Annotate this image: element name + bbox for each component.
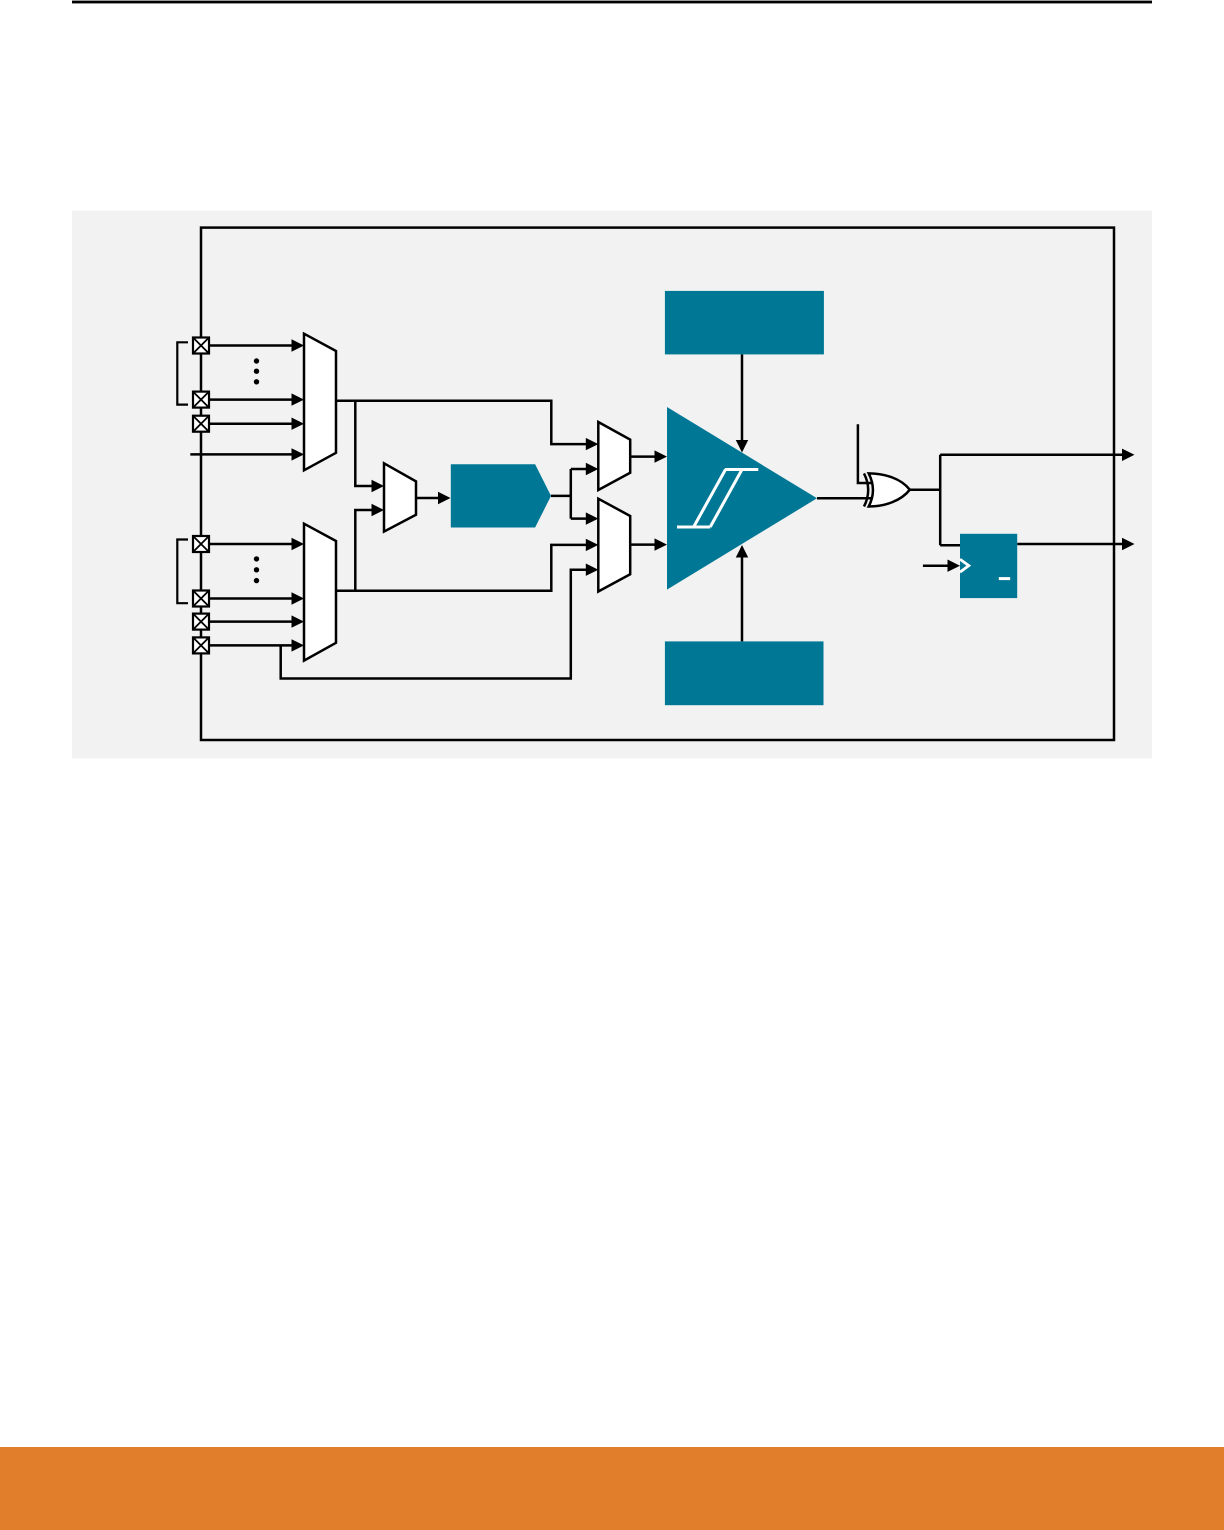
arrow bottom ctrl up: [736, 545, 748, 558]
dots top group: [254, 358, 259, 384]
flipflop box: [960, 534, 1017, 598]
wire flipflop out: [1017, 543, 1122, 546]
arrow comparator plus in: [655, 450, 668, 462]
wire mux5 out to comparator minus: [630, 543, 655, 546]
wire pentagon out junction: [551, 469, 587, 519]
pad 1: [193, 338, 209, 354]
bracket bottom pad group: [177, 540, 188, 604]
wire branch mux1 out to mux3 in1: [355, 401, 373, 486]
wire xor out junction: [910, 455, 1123, 545]
pad 5: [193, 591, 209, 607]
arrow mux1 in4: [292, 448, 305, 460]
bracket top pad group: [177, 342, 188, 404]
arrow mux1 in2: [292, 393, 305, 405]
wire invert ctrl to xor top input: [858, 424, 871, 483]
pad 3: [193, 416, 209, 432]
arrow mux5 in1: [586, 512, 599, 524]
wire mux3 out to vref pentagon: [416, 497, 439, 500]
wire clock to flipflop: [923, 564, 948, 567]
wire comparator out to xor: [817, 497, 871, 500]
figure background: [72, 211, 1152, 759]
wire pad6 to mux2 in3: [209, 620, 293, 623]
arrow mux3 out to pentagon: [438, 492, 451, 504]
arrow comparator minus in: [655, 538, 668, 550]
arrow mux3 in1: [372, 480, 385, 492]
arrow clock into flipflop: [948, 560, 961, 572]
wire pad4 to mux2 in1: [209, 543, 293, 546]
block border rectangle: [201, 228, 1114, 740]
mux1 positive input mux: [304, 334, 336, 471]
arrow mux1 in3: [292, 418, 305, 430]
arrow mux5 in3: [586, 564, 599, 576]
dots bottom group: [254, 556, 259, 583]
arrow output top: [1122, 449, 1135, 461]
mux4 plus select mux: [598, 422, 630, 490]
wire pad2 to mux1 in2: [209, 398, 293, 401]
flipflop white dash: [999, 577, 1010, 580]
wire top ctrl box to comparator: [741, 354, 744, 440]
arrow mux4 in2: [586, 463, 599, 475]
arrow output bottom: [1122, 538, 1135, 550]
pad 7: [193, 637, 209, 653]
pad 2: [193, 392, 209, 408]
wire mux1 out to mux4 in1: [336, 401, 587, 444]
arrow mux1 in1: [292, 339, 305, 351]
wire bottom ctrl box to comparator: [741, 557, 744, 641]
arrow mux2 in1: [292, 538, 305, 550]
wire pad3 to mux1 in3: [209, 422, 293, 425]
arrow top ctrl down: [736, 440, 748, 453]
wire pad7 to mux2 in4: [209, 644, 293, 647]
pad 4: [193, 536, 209, 552]
footer bar: [0, 1447, 1224, 1530]
arrow mux2 in4: [292, 639, 305, 651]
wire pad1 to mux1 in1: [209, 344, 293, 347]
bottom control box: [665, 641, 824, 705]
top control box: [665, 291, 824, 355]
hysteresis symbol: [677, 470, 758, 528]
header rule: [72, 1, 1152, 4]
mux5 minus select mux: [598, 499, 630, 592]
comparator triangle: [667, 407, 817, 590]
vref pentagon: [451, 464, 551, 527]
arrow mux4 in1: [586, 438, 599, 450]
arrow mux3 in2: [372, 504, 385, 516]
wire pad7 branch to mux5 in3: [281, 570, 587, 679]
wire dangling to mux1 in4: [190, 453, 293, 456]
pad 6: [193, 614, 209, 630]
arrow mux2 in2: [292, 592, 305, 604]
xor gate: [864, 473, 910, 506]
wire mux2 out to mux5 in2: [336, 545, 587, 591]
flipflop clock chevron: [960, 559, 969, 572]
mux3 vref select mux: [384, 463, 416, 531]
mux2 negative input mux: [304, 524, 336, 661]
arrow mux5 in2: [586, 539, 599, 551]
wire branch mux2 out to mux3 in2: [355, 510, 373, 591]
wire mux4 out to comparator plus: [630, 455, 655, 458]
arrow mux2 in3: [292, 615, 305, 627]
wire pad5 to mux2 in2: [209, 597, 293, 600]
